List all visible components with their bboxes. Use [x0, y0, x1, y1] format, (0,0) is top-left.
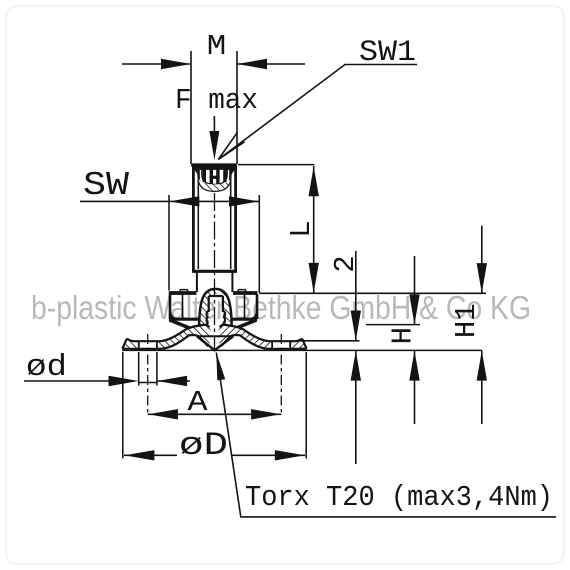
top line extension (spindle top) [238, 164, 315, 166]
torx cup hatched crescent [199, 177, 231, 191]
dim M arrows [161, 59, 267, 69]
torx recess comb [192, 166, 237, 185]
spindle cap top [191, 163, 237, 166]
svg-text:ød: ød [26, 350, 67, 385]
svg-text:SW: SW [83, 167, 129, 204]
flange top reference line [259, 292, 486, 294]
svg-text:F max: F max [175, 84, 258, 117]
wing top reference [300, 340, 360, 342]
svg-text:M: M [207, 30, 227, 63]
svg-text:øD: øD [179, 427, 228, 464]
ground line [122, 349, 482, 351]
torx cup inner arc [202, 166, 227, 184]
dim M tail lines [122, 63, 190, 65]
hump top stub (H) [366, 324, 420, 326]
neck below spindle [197, 272, 233, 292]
svg-text:L: L [285, 220, 318, 237]
torx cup outline [199, 166, 231, 191]
hole center lines [147, 334, 149, 416]
spindle right wall [234, 166, 237, 271]
flange top nubs [180, 290, 189, 291]
center line (dash-dot) [214, 193, 216, 349]
svg-text:H: H [387, 327, 420, 344]
svg-text:Torx T20 (max3,4Nm): Torx T20 (max3,4Nm) [245, 481, 553, 514]
stud inside dome with thread [207, 296, 226, 336]
spindle bottom [192, 270, 237, 273]
svg-text:2: 2 [329, 255, 362, 272]
svg-text:H1: H1 [450, 303, 483, 338]
dim M extension lines [190, 51, 192, 164]
spindle left wall [192, 166, 195, 271]
watermark [31, 289, 531, 326]
